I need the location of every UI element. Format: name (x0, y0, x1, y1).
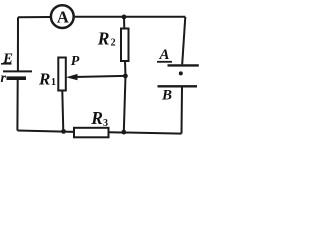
wire left vertical lower (battery to bottom) (16, 80, 18, 131)
battery E long plate (3, 70, 32, 72)
svg-text:A: A (159, 47, 170, 63)
svg-text:R: R (90, 108, 103, 128)
wire bottom right (109, 132, 182, 133)
wire top left horizontal (18, 16, 50, 18)
wire R2 bottom to P junction (124, 61, 127, 76)
label E underline (1, 63, 12, 65)
label A underline (157, 61, 172, 63)
wire P junction down to bottom wire (124, 76, 126, 132)
ammeter A1 circle (51, 5, 74, 28)
junction dot P slider (123, 74, 128, 79)
slider P arrow (66, 74, 126, 80)
wire left vertical upper (to battery) (17, 17, 19, 70)
svg-text:r: r (1, 71, 7, 86)
wire bottom left (17, 131, 74, 132)
resistor R1 box (58, 58, 66, 91)
svg-text:R: R (38, 69, 50, 88)
svg-text:1: 1 (51, 77, 56, 88)
svg-text:3: 3 (103, 118, 108, 129)
battery E short thick plate (7, 76, 27, 80)
wire right vertical lower (plate B to bottom) (181, 87, 184, 133)
charged particle dot (179, 71, 183, 75)
resistor R2 box (121, 29, 129, 62)
svg-text:B: B (161, 87, 172, 103)
junction dot top (R2 branch) (122, 15, 127, 20)
wire R2 top stub (123, 17, 125, 29)
plate A (168, 64, 199, 66)
junction dot bottom right (R2 branch) (121, 130, 126, 135)
junction dot bottom left (R1 branch) (61, 129, 66, 134)
wire top right horizontal (75, 16, 186, 18)
plate B (158, 85, 198, 87)
svg-text:A: A (57, 7, 69, 26)
svg-text:2: 2 (111, 38, 116, 49)
resistor R3 box (74, 128, 109, 138)
svg-text:P: P (71, 54, 80, 69)
svg-text:R: R (97, 29, 110, 49)
wire right vertical upper (to plate A) (182, 17, 185, 65)
wire R1 bottom down (62, 91, 63, 132)
